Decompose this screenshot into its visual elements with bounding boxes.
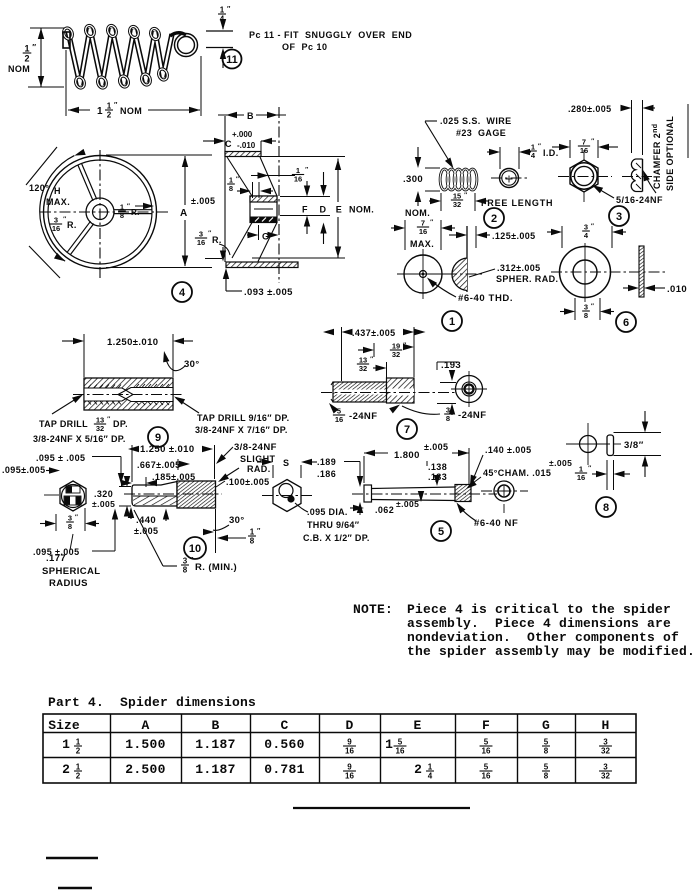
svg-text:5: 5 <box>484 763 489 772</box>
piece5 rod body <box>372 487 456 489</box>
leader #6-40 THD <box>425 275 437 287</box>
piece5 threaded tip <box>455 485 471 502</box>
piece9 body with hatch <box>84 378 173 410</box>
dim 1-1/2 NOM (spring length) <box>65 50 67 116</box>
section piece4 hub <box>250 196 277 223</box>
svg-text:16: 16 <box>335 415 343 424</box>
piece1 side view <box>466 226 468 292</box>
svg-text:.280±.005: .280±.005 <box>568 104 612 114</box>
dim 1/8 piece10 <box>215 509 217 553</box>
section piece4 bottom flange bar <box>226 262 298 268</box>
svg-text:1: 1 <box>385 737 393 752</box>
svg-text:3/8-24NF X 5/16″ DP.: 3/8-24NF X 5/16″ DP. <box>33 434 126 444</box>
svg-text:30°: 30° <box>229 515 245 526</box>
svg-text:2: 2 <box>491 213 497 225</box>
svg-text:±.005: ±.005 <box>424 442 448 452</box>
svg-text:Part 4. Spider dimensions: Part 4. Spider dimensions <box>48 695 256 710</box>
svg-text:16: 16 <box>345 746 354 755</box>
svg-text:RAD.: RAD. <box>247 464 271 474</box>
svg-text:.186: .186 <box>317 469 336 479</box>
svg-text:THRU 9/64″: THRU 9/64″ <box>307 520 360 530</box>
svg-text:±.005: ±.005 <box>92 499 115 509</box>
dim 3/4 <box>561 226 563 248</box>
label 5/16-24NF piece7 <box>327 401 339 414</box>
svg-text:S: S <box>283 458 289 468</box>
svg-text:16: 16 <box>345 771 354 780</box>
svg-text:+.000: +.000 <box>232 130 253 139</box>
svg-text:CHAMFER 2nd: CHAMFER 2nd <box>652 124 662 189</box>
svg-text:C.B. X 1/2″ DP.: C.B. X 1/2″ DP. <box>303 533 370 543</box>
svg-text:3/8-24NF X 7/16″ DP.: 3/8-24NF X 7/16″ DP. <box>195 425 288 435</box>
svg-text:R.: R. <box>131 208 140 217</box>
svg-text:16: 16 <box>294 174 302 183</box>
svg-text:5/16-24NF: 5/16-24NF <box>616 195 663 205</box>
extension slant lines 120deg <box>26 147 57 185</box>
svg-text:SIDE OPTIONAL: SIDE OPTIONAL <box>665 116 675 191</box>
svg-text:MAX.: MAX. <box>46 197 70 207</box>
svg-text:9: 9 <box>347 763 352 772</box>
piece8 side strip <box>607 435 614 456</box>
svg-text:nondeviation. Other component: nondeviation. Other components of <box>407 630 679 645</box>
wheel piece4 centerlines <box>40 211 168 213</box>
svg-text:E: E <box>414 718 422 733</box>
balloon 8 <box>596 497 616 517</box>
svg-text:9: 9 <box>155 432 161 444</box>
svg-text:32: 32 <box>96 424 104 433</box>
svg-text:1: 1 <box>62 737 70 752</box>
label 5/16-24NF <box>602 191 614 198</box>
dim 1.250 piece10 <box>131 445 133 482</box>
svg-text:″: ″ <box>464 192 467 199</box>
hex nut centerlines <box>558 176 612 178</box>
leader .025 wire <box>425 120 437 122</box>
piece10 hex end view <box>60 481 86 511</box>
svg-text:.062: .062 <box>375 505 394 515</box>
svg-text:D: D <box>320 205 327 215</box>
svg-text:-.010: -.010 <box>237 141 256 150</box>
svg-text:OF Pc 10: OF Pc 10 <box>282 42 328 52</box>
svg-text:B: B <box>247 111 254 121</box>
svg-text:NOM: NOM <box>120 106 142 116</box>
svg-text:16: 16 <box>396 746 405 755</box>
balloon 4 <box>172 282 192 302</box>
piece5 hex S end view <box>273 480 301 512</box>
label .312 SPHER RAD <box>469 269 495 277</box>
section piece4 web slant lines top <box>227 157 252 196</box>
dim 7/16 MAX <box>404 220 406 250</box>
label 3/8-24NF piece7 <box>389 402 402 414</box>
svg-text:2: 2 <box>414 762 422 777</box>
svg-text:″: ″ <box>236 176 239 183</box>
dim .125 <box>475 226 477 248</box>
svg-text:120°: 120° <box>29 183 49 193</box>
svg-text:.312±.005: .312±.005 <box>497 263 541 273</box>
svg-text:H: H <box>602 718 610 733</box>
spring Pc11 left end bar <box>63 32 70 48</box>
piece10 hex centerline <box>44 494 59 496</box>
svg-text:8: 8 <box>120 211 124 220</box>
dim D <box>280 196 330 198</box>
svg-text:″: ″ <box>430 219 433 226</box>
svg-text:″: ″ <box>591 223 594 230</box>
svg-text:B: B <box>212 718 220 733</box>
svg-text:H: H <box>54 186 61 196</box>
svg-text:32: 32 <box>359 364 367 373</box>
dim .437 +-.005 <box>341 327 343 381</box>
svg-text:1.187: 1.187 <box>195 762 236 777</box>
svg-text:″: ″ <box>591 303 594 310</box>
svg-text:.010: .010 <box>667 284 687 295</box>
svg-text:1.800: 1.800 <box>394 450 420 461</box>
piece9 centerline <box>73 394 184 396</box>
svg-text:1: 1 <box>107 102 112 111</box>
dim F <box>306 181 308 192</box>
svg-text:C: C <box>281 718 289 733</box>
section piece4 top flange bar <box>225 152 261 157</box>
svg-text:Pc 11 - FIT SNUGGLY OVER EN: Pc 11 - FIT SNUGGLY OVER END <box>249 30 412 40</box>
svg-text:0.781: 0.781 <box>264 762 305 777</box>
svg-text:3: 3 <box>603 763 608 772</box>
svg-text:2: 2 <box>107 110 112 119</box>
svg-text:32: 32 <box>392 350 400 359</box>
svg-text:#6-40 THD.: #6-40 THD. <box>458 293 513 304</box>
chamfer leader <box>645 175 656 193</box>
balloon 7 <box>397 419 417 439</box>
page edge artifact right <box>687 104 689 158</box>
svg-text:6: 6 <box>623 317 629 329</box>
svg-text:.093 ±.005: .093 ±.005 <box>244 287 293 298</box>
piece6 washer circles <box>560 247 611 298</box>
svg-text:8: 8 <box>446 414 450 423</box>
dim .280 <box>631 100 633 153</box>
svg-text:1: 1 <box>24 44 29 54</box>
svg-text:″: ″ <box>591 138 594 145</box>
svg-text:.095±.005: .095±.005 <box>2 465 46 475</box>
svg-text:.667±.005: .667±.005 <box>137 460 181 470</box>
svg-text:8: 8 <box>544 771 549 780</box>
balloon 6 <box>616 312 636 332</box>
svg-text:5: 5 <box>484 738 489 747</box>
svg-text:-24NF: -24NF <box>458 410 486 421</box>
svg-text:8: 8 <box>229 184 233 193</box>
svg-text:″: ″ <box>588 465 591 472</box>
svg-text:DP.: DP. <box>113 419 128 429</box>
piece6 centerlines <box>551 271 668 273</box>
svg-text:1: 1 <box>76 763 81 772</box>
svg-text:1: 1 <box>250 528 255 537</box>
svg-text:5: 5 <box>438 526 444 538</box>
svg-text:NOM: NOM <box>8 64 30 74</box>
svg-text:.095 ± .005: .095 ± .005 <box>36 453 85 463</box>
svg-text:.140 ±.005: .140 ±.005 <box>485 445 531 455</box>
svg-text:16: 16 <box>482 746 491 755</box>
svg-text:-24NF: -24NF <box>349 411 377 422</box>
svg-text:2: 2 <box>76 746 81 755</box>
dim 15/32 free length <box>440 193 442 211</box>
svg-text:NOM.: NOM. <box>349 205 374 215</box>
svg-text:8: 8 <box>183 565 188 574</box>
svg-text:.095 DIA.: .095 DIA. <box>307 507 348 517</box>
wheel piece4 hub <box>86 198 114 226</box>
balloon 3 <box>609 206 629 226</box>
svg-text:7: 7 <box>404 424 410 436</box>
balloon 10 <box>184 537 206 559</box>
dim 1/16 piece8 <box>606 460 608 490</box>
svg-text:.189: .189 <box>317 457 336 467</box>
dim 3/8 piece8 <box>614 432 662 434</box>
dim 1/4 ID <box>499 147 501 169</box>
svg-text:″: ″ <box>75 514 78 521</box>
spring piece2 coil <box>440 169 449 190</box>
dim 1/2 NOM (spring height) <box>30 27 64 29</box>
dim C +.000 -.010 <box>203 140 214 142</box>
svg-text:TAP DRILL 9/16″ DP.: TAP DRILL 9/16″ DP. <box>197 413 289 423</box>
svg-text:1.250 ±.010: 1.250 ±.010 <box>140 444 195 455</box>
svg-text:I.D.: I.D. <box>543 148 559 158</box>
piece5 head <box>364 485 372 502</box>
svg-text:3: 3 <box>603 738 608 747</box>
svg-text:3/8-24NF: 3/8-24NF <box>234 442 277 453</box>
dim 1.250 +-.010 piece9 <box>83 334 85 377</box>
svg-text:3: 3 <box>616 211 622 223</box>
svg-text:Size: Size <box>48 718 80 733</box>
svg-text:R.: R. <box>67 220 77 230</box>
svg-text:.138: .138 <box>428 462 447 472</box>
svg-text:8: 8 <box>68 522 72 531</box>
section piece4 web slant lines bottom <box>232 223 252 259</box>
section piece4 bottom ext line right <box>252 257 345 259</box>
spring Pc11 coil <box>68 29 172 86</box>
dim G <box>258 225 260 240</box>
svg-text:3: 3 <box>183 557 188 566</box>
balloon 5 <box>431 521 451 541</box>
svg-text:1: 1 <box>76 738 81 747</box>
svg-text:1: 1 <box>449 316 455 328</box>
svg-text:A: A <box>142 718 150 733</box>
dim .093 arrows <box>222 247 224 257</box>
piece5 end view <box>494 481 514 501</box>
svg-text:E: E <box>336 205 342 215</box>
section piece4 left rim edge line <box>224 116 226 262</box>
svg-text:NOM.: NOM. <box>405 208 430 218</box>
svg-text:#6-40 NF: #6-40 NF <box>474 518 518 529</box>
bottom left rule 1 <box>46 857 98 860</box>
piece6 side strip <box>639 246 644 297</box>
piece10 hex slot details <box>66 486 80 493</box>
svg-text:.437±.005: .437±.005 <box>352 328 396 338</box>
svg-text:8: 8 <box>250 536 255 545</box>
svg-text:SPHER. RAD.: SPHER. RAD. <box>496 274 558 284</box>
svg-text:±.005: ±.005 <box>191 196 215 206</box>
arc 120 deg with arrows <box>40 156 75 262</box>
piece1 crosshair <box>397 273 449 275</box>
svg-text:.320: .320 <box>94 489 113 499</box>
balloon 2 <box>484 208 504 228</box>
svg-text:1.250±.010: 1.250±.010 <box>107 337 158 348</box>
svg-text:3/8″: 3/8″ <box>624 440 644 451</box>
svg-text:SPHERICAL: SPHERICAL <box>42 566 101 577</box>
svg-text:C: C <box>225 139 232 149</box>
svg-text:16: 16 <box>52 224 60 233</box>
leader tap drill right <box>176 398 199 413</box>
bottom center rule <box>293 807 470 809</box>
svg-text:8: 8 <box>544 746 549 755</box>
svg-text:D: D <box>346 718 354 733</box>
piece8 front circle <box>580 436 597 453</box>
dim .010 <box>623 287 628 289</box>
svg-text:2: 2 <box>24 53 29 63</box>
svg-text:16: 16 <box>419 227 427 236</box>
svg-text:″: ″ <box>63 216 66 223</box>
piece9 tapped bores <box>84 388 133 401</box>
dim 19/32 <box>373 343 375 357</box>
side view centerline <box>622 176 652 178</box>
svg-text:1.187: 1.187 <box>195 737 236 752</box>
balloon 11 <box>223 50 242 69</box>
section piece4 vertical centerline <box>278 107 280 283</box>
svg-text:1: 1 <box>428 763 433 772</box>
piece7 body threaded left portion <box>333 382 387 402</box>
svg-text:assembly. Piece 4 dimensions: assembly. Piece 4 dimensions are <box>407 616 671 631</box>
hex nut side view <box>642 159 644 192</box>
svg-text:1: 1 <box>97 106 103 117</box>
dim 3/8 hex <box>55 514 57 531</box>
balloon 9 <box>148 427 168 447</box>
svg-text:5: 5 <box>544 738 549 747</box>
svg-text:16: 16 <box>482 771 491 780</box>
svg-text:5: 5 <box>398 738 403 747</box>
svg-text:R. (MIN.): R. (MIN.) <box>195 562 237 573</box>
piece1 front circle <box>404 255 442 293</box>
svg-text:45°CHAM. .015: 45°CHAM. .015 <box>483 468 551 478</box>
svg-text:16: 16 <box>580 146 588 155</box>
svg-text:1: 1 <box>220 6 225 15</box>
piece5 centerline <box>352 493 497 495</box>
section piece4 top ext line right <box>261 156 345 158</box>
spring Pc11 end loop <box>176 35 196 55</box>
balloon 1 <box>442 311 462 331</box>
piece7 centerline <box>321 392 455 394</box>
label .095 DIA THRU <box>295 503 308 512</box>
svg-text:2: 2 <box>62 762 70 777</box>
svg-text:″: ″ <box>538 143 541 150</box>
dim 3/8 washer <box>574 298 576 320</box>
svg-text:32: 32 <box>601 771 610 780</box>
piece10 shaft left cylinder <box>132 482 177 507</box>
svg-text:NOTE:: NOTE: <box>353 602 393 617</box>
svg-text:±.005: ±.005 <box>396 499 419 509</box>
svg-text:.025 S.S. WIRE: .025 S.S. WIRE <box>440 116 512 126</box>
svg-text:2.500: 2.500 <box>125 762 166 777</box>
svg-text:9: 9 <box>347 738 352 747</box>
svg-text:16: 16 <box>197 238 205 247</box>
svg-text:5: 5 <box>544 763 549 772</box>
svg-text:30°: 30° <box>184 359 200 370</box>
svg-text:±.005: ±.005 <box>549 458 572 468</box>
svg-text:.300: .300 <box>403 174 423 185</box>
svg-text:8: 8 <box>603 502 609 514</box>
svg-text:4: 4 <box>428 771 433 780</box>
wheel piece4 outer rim <box>44 156 157 269</box>
piece7 end view <box>456 376 483 403</box>
svg-text:A: A <box>180 208 187 219</box>
svg-text:RADIUS: RADIUS <box>49 578 88 589</box>
dim A extension lines <box>106 154 212 156</box>
piece2 end view circle <box>500 169 519 188</box>
svg-text:″: ″ <box>370 356 373 363</box>
piece10 shaft threaded portion <box>177 481 216 508</box>
piece7 body right portion <box>387 378 415 403</box>
svg-text:G: G <box>542 718 550 733</box>
svg-text:8: 8 <box>584 311 588 320</box>
svg-text:MAX.: MAX. <box>410 239 434 249</box>
svg-text:FREE LENGTH: FREE LENGTH <box>481 198 553 208</box>
svg-text:.185±.005: .185±.005 <box>152 472 196 482</box>
svg-text:″: ″ <box>305 167 308 174</box>
svg-text:.177: .177 <box>46 553 66 564</box>
dim E <box>337 159 339 203</box>
table grid <box>43 714 636 783</box>
svg-text:F: F <box>302 205 308 215</box>
piece9 bore thread ticks <box>88 385 91 389</box>
svg-text:32: 32 <box>453 200 461 209</box>
svg-text:10: 10 <box>189 543 201 555</box>
svg-text:11: 11 <box>226 54 238 66</box>
svg-text:2: 2 <box>76 771 81 780</box>
svg-text:R.: R. <box>212 235 222 245</box>
wheel piece4 spoke upper-left <box>78 165 93 201</box>
svg-text:0.560: 0.560 <box>264 737 305 752</box>
dim 1.800 <box>363 456 365 483</box>
svg-text:4: 4 <box>179 287 186 299</box>
svg-text:″: ″ <box>32 43 36 52</box>
dim .440 <box>128 507 134 518</box>
dim 7/16 hex <box>569 140 571 158</box>
wheel piece4 spoke lower-left <box>70 224 93 255</box>
svg-text:″: ″ <box>107 416 110 423</box>
wheel piece4 spoke right <box>114 209 152 211</box>
dim A line <box>184 156 186 205</box>
svg-text:″: ″ <box>127 203 130 210</box>
svg-text:″: ″ <box>208 230 211 237</box>
dim B <box>218 114 244 116</box>
bottom left rule 2 <box>58 887 92 889</box>
svg-text:1.500: 1.500 <box>125 737 166 752</box>
svg-text:16: 16 <box>577 473 585 482</box>
svg-text:.100±.005: .100±.005 <box>226 477 270 487</box>
svg-text:32: 32 <box>601 746 610 755</box>
hex nut piece3 front <box>570 160 598 192</box>
svg-text:.125±.005: .125±.005 <box>492 231 536 241</box>
svg-text:#23 GAGE: #23 GAGE <box>456 128 506 138</box>
svg-text:TAP DRILL: TAP DRILL <box>39 419 88 429</box>
piece10 shaft centerline <box>124 493 222 495</box>
leader tap drill left <box>52 397 79 414</box>
svg-text:Piece 4 is critical to the spi: Piece 4 is critical to the spider <box>407 602 671 617</box>
dim S <box>272 465 274 478</box>
svg-text:the spider assembly may be mod: the spider assembly may be modified. <box>407 644 695 659</box>
svg-text:F: F <box>482 718 490 733</box>
